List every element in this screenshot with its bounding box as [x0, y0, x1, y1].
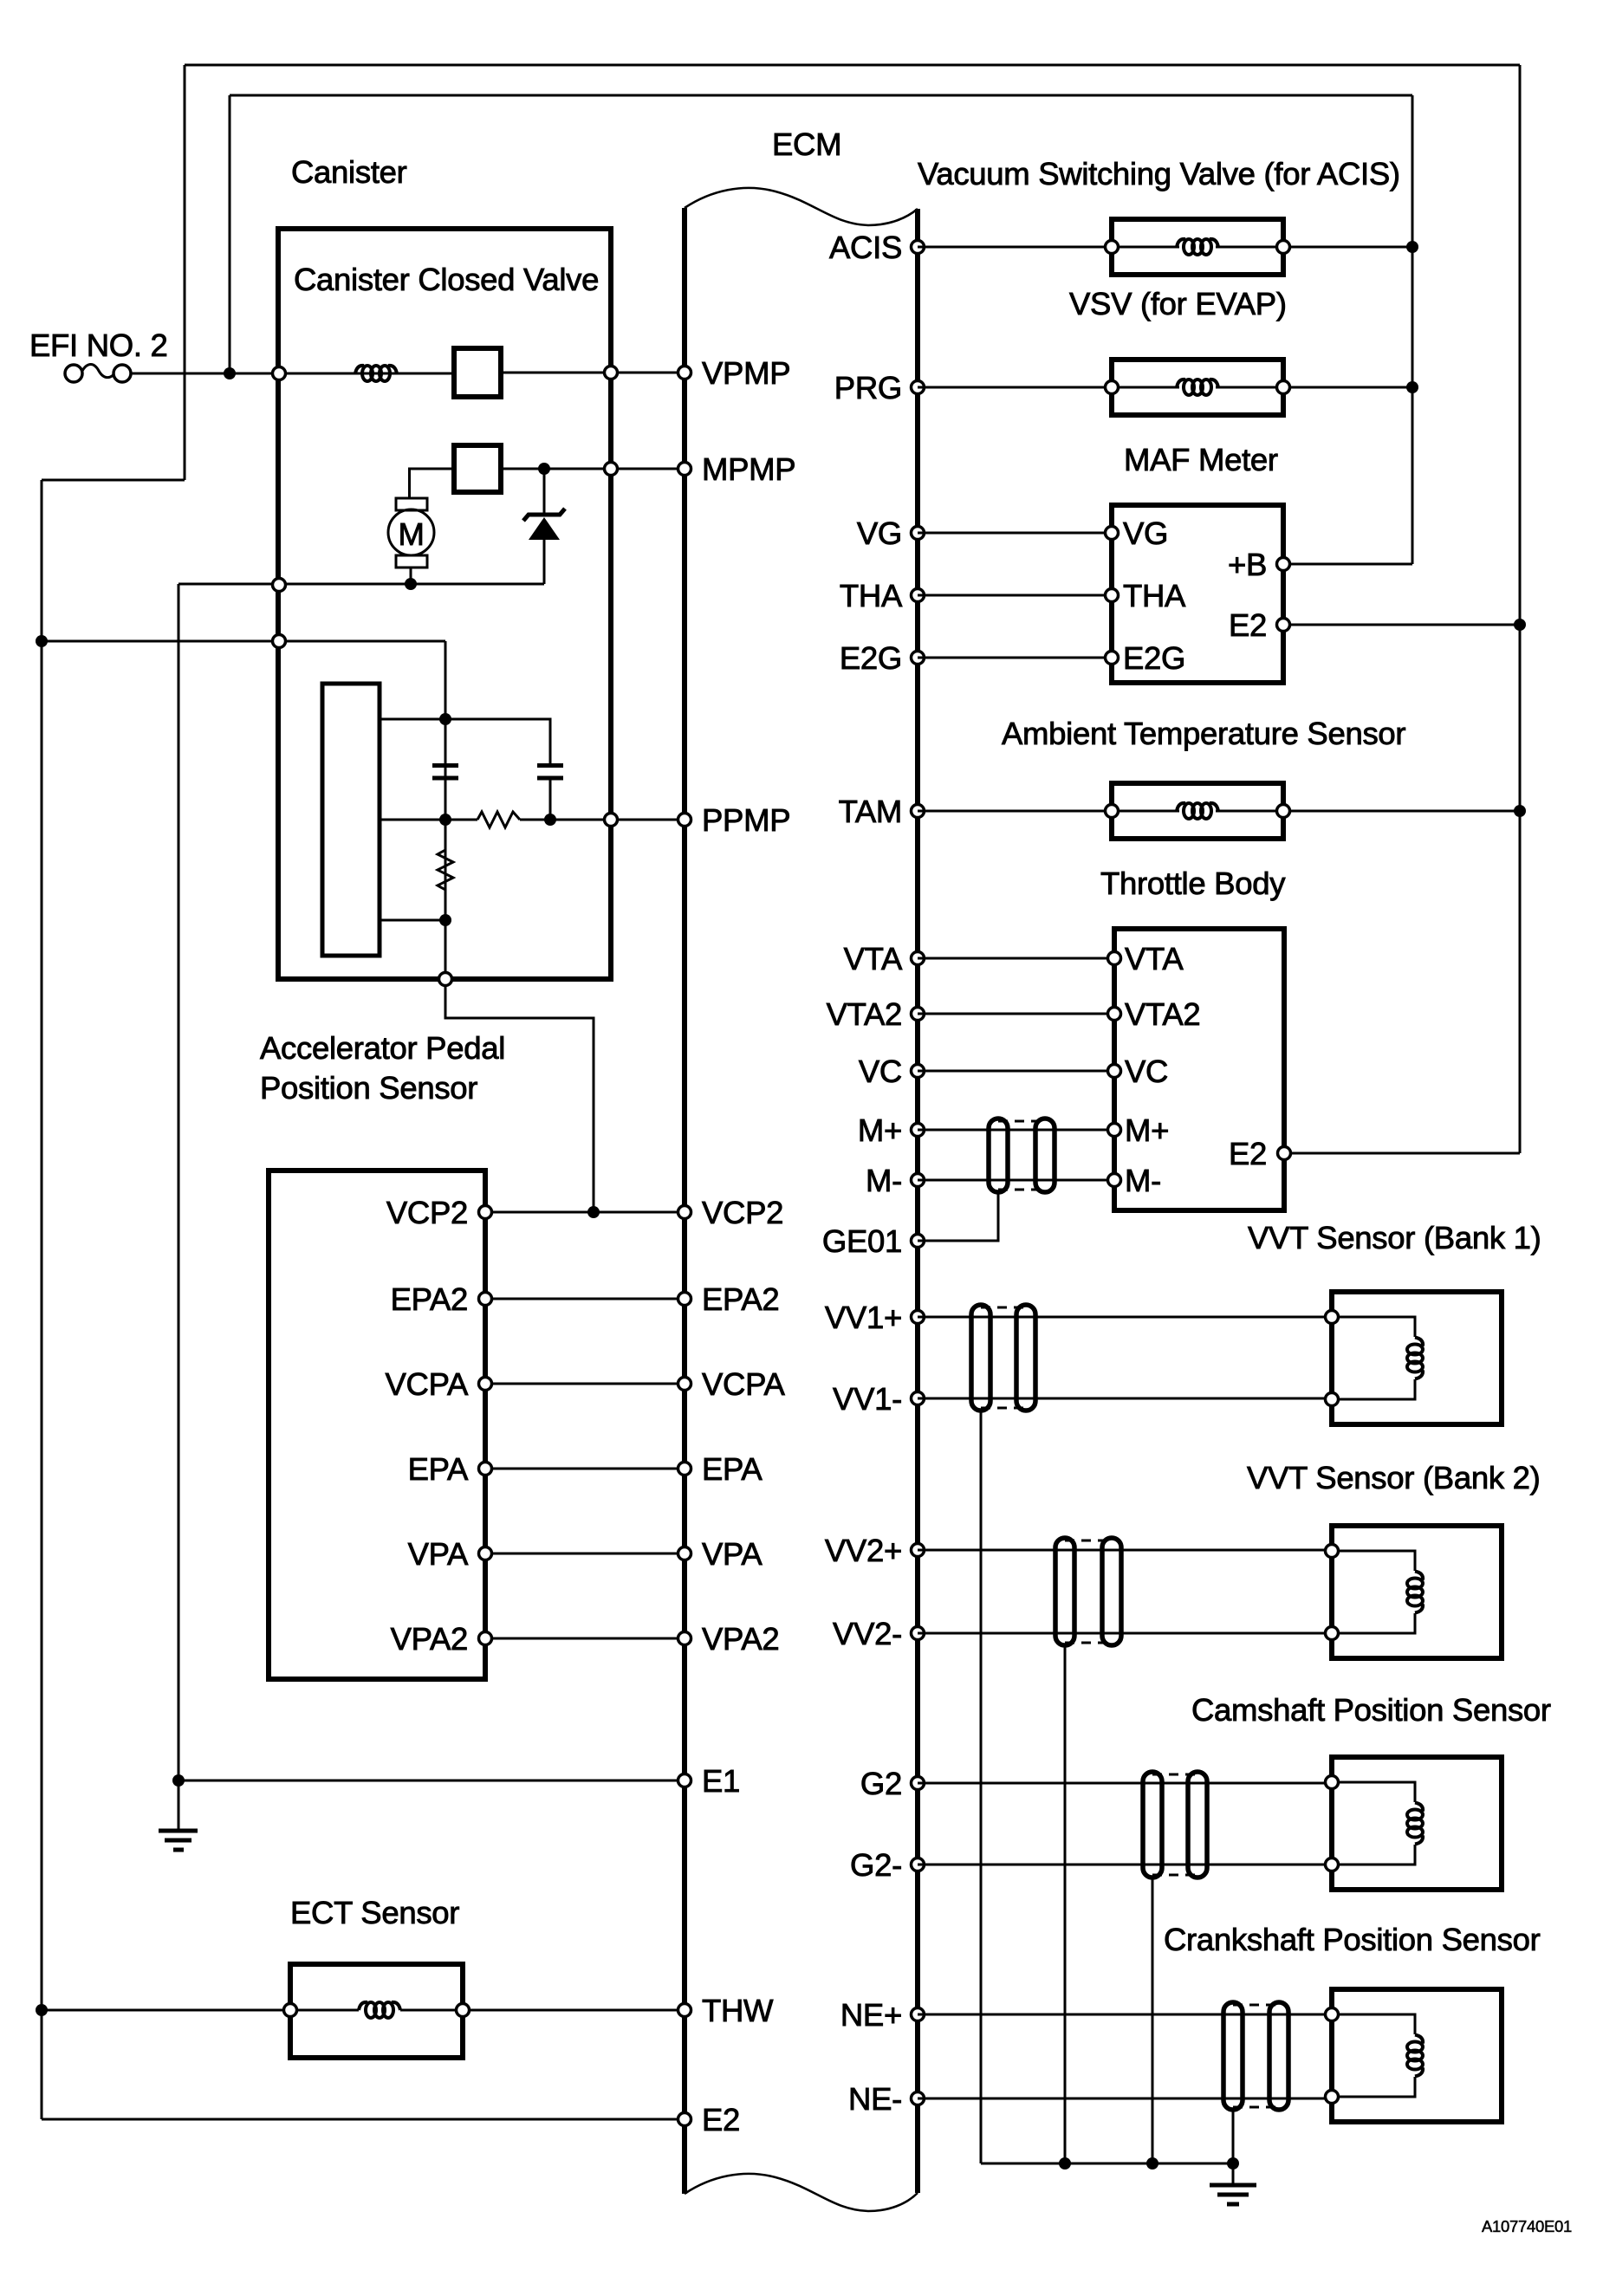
twisted pair NE — [1223, 2002, 1288, 2110]
wire: E1 drop line — [178, 584, 180, 1780]
inductor: ECT coil — [359, 2002, 400, 2018]
svg-text:Crankshaft Position Sensor: Crankshaft Position Sensor — [1164, 1922, 1541, 1957]
wire VPA — [485, 1553, 685, 1555]
pin: ECM ACIS — [912, 241, 925, 254]
node: junction resistor / C2 — [544, 814, 556, 826]
pin: ECM GE01 — [912, 1235, 925, 1248]
svg-text:MAF Meter: MAF Meter — [1124, 442, 1278, 477]
node: junction VCP2 / canister drain — [587, 1206, 600, 1218]
svg-text:Canister Closed Valve: Canister Closed Valve — [294, 262, 599, 297]
svg-text:Ambient Temperature Sensor: Ambient Temperature Sensor — [1002, 716, 1405, 751]
wire VCPA — [485, 1383, 685, 1385]
pin: ECM PPMP — [678, 814, 691, 827]
node: junction ACIS / +B line — [1406, 241, 1418, 253]
wire VV1- — [918, 1398, 1332, 1400]
pin: ECM THW — [678, 2004, 691, 2017]
accelerator pedal position sensor box — [269, 1171, 485, 1679]
ECM top wavy edge — [685, 188, 918, 225]
node: junction THW / left border — [36, 2004, 48, 2016]
svg-text:GE01: GE01 — [822, 1223, 902, 1259]
svg-text:VV2+: VV2+ — [825, 1533, 902, 1568]
wire G2- — [918, 1864, 1332, 1866]
node: junction MPMP / zener — [538, 463, 550, 475]
svg-text:EPA2: EPA2 — [702, 1281, 779, 1317]
svg-text:E2: E2 — [1229, 607, 1267, 643]
wire: EFI NO.2 to canister VPMP row — [131, 373, 279, 375]
svg-text:VTA2: VTA2 — [1125, 996, 1200, 1032]
wire: MPMP square left lead to motor — [410, 469, 455, 498]
wire +B to supply line — [1283, 563, 1412, 566]
wire: outer border jog — [42, 479, 185, 482]
pin: ECT right — [457, 2004, 470, 2017]
wire VTA — [918, 957, 1114, 960]
fuse EFI NO. 2 — [29, 328, 168, 382]
wire: inner border top line — [230, 94, 1412, 97]
svg-text:ECM: ECM — [772, 126, 841, 162]
wire ACIS VSV output — [1283, 246, 1412, 249]
VVT sensor bank1 box — [1326, 1292, 1502, 1424]
pin: ECM NE- — [912, 2092, 925, 2105]
pin: ECM TAM — [912, 805, 925, 818]
inductor: canister closed valve coil — [355, 366, 397, 381]
canister closed valve solenoid square — [454, 348, 501, 397]
svg-text:NE+: NE+ — [840, 1997, 902, 2033]
ground: E1 — [159, 1780, 198, 1850]
pin: throttle VTA — [1108, 952, 1121, 965]
pin: ECM THA — [912, 589, 925, 602]
pin: ECM VV1- — [912, 1392, 925, 1405]
pump module rectangle — [322, 684, 380, 956]
twisted pair M+/M- — [989, 1119, 1055, 1192]
pin: APP VCPA — [479, 1378, 492, 1391]
svg-text:VV1-: VV1- — [833, 1381, 902, 1417]
pin: APP VPA — [479, 1547, 492, 1560]
svg-text:VVT Sensor (Bank 1): VVT Sensor (Bank 1) — [1248, 1220, 1541, 1255]
wire NE shield drop — [1232, 2110, 1235, 2163]
svg-text:VTA: VTA — [1125, 941, 1184, 976]
wire: VPMP canister to ECM — [611, 372, 685, 374]
pin: APP EPA — [479, 1463, 492, 1476]
svg-text:VCPA: VCPA — [386, 1366, 469, 1402]
pin: ECM EPA — [678, 1463, 691, 1476]
node: junction NE shield — [1227, 2157, 1239, 2170]
pin: ECM VG — [912, 527, 925, 540]
node: junction pump top — [439, 713, 451, 725]
svg-text:THA: THA — [1123, 578, 1186, 613]
pin: canister left VPMP — [273, 367, 286, 380]
svg-text:PPMP: PPMP — [702, 802, 790, 838]
svg-text:M-: M- — [866, 1163, 902, 1198]
wire M+ — [918, 1129, 1114, 1132]
pin: ECM E2 — [678, 2113, 691, 2126]
svg-text:VCP2: VCP2 — [702, 1195, 783, 1230]
svg-text:E2G: E2G — [1123, 640, 1185, 676]
svg-text:Camshaft Position Sensor: Camshaft Position Sensor — [1191, 1692, 1551, 1728]
svg-text:EPA: EPA — [702, 1451, 763, 1487]
capacitor C1 — [432, 766, 458, 779]
svg-text:VG: VG — [1123, 516, 1168, 551]
pin: MAF THA — [1106, 589, 1119, 602]
wire shield ground bus — [981, 2163, 1233, 2165]
camshaft position sensor box — [1326, 1757, 1502, 1890]
pin: throttle M+ — [1108, 1124, 1121, 1137]
wire THW right — [463, 2009, 685, 2012]
svg-text:VTA: VTA — [844, 941, 903, 976]
zener diode across motor — [523, 469, 565, 584]
wire NE- — [918, 2098, 1332, 2100]
motor M pump — [388, 498, 434, 584]
wire E1 — [178, 1780, 685, 1782]
wire MAF E2 to far right line — [1283, 624, 1520, 626]
svg-text:G2-: G2- — [850, 1847, 902, 1883]
svg-text:VV1+: VV1+ — [825, 1300, 902, 1335]
node: junction MAF E2 / right border — [1514, 619, 1526, 631]
node: junction G2 shield — [1146, 2157, 1158, 2170]
twisted pair VV2 — [1055, 1538, 1121, 1645]
svg-text:PRG: PRG — [834, 370, 902, 405]
pin: ECM VPMP — [678, 366, 691, 379]
ECM left edge — [682, 208, 687, 2194]
pin: throttle VTA2 — [1108, 1008, 1121, 1021]
wire VPA2 — [485, 1638, 685, 1640]
svg-text:E2: E2 — [702, 2102, 740, 2137]
twisted pair VV1 — [971, 1305, 1035, 1411]
svg-text:ECT Sensor: ECT Sensor — [290, 1895, 459, 1930]
svg-text:VC: VC — [1125, 1054, 1168, 1089]
svg-text:ACIS: ACIS — [829, 230, 902, 265]
twisted pair G2 — [1143, 1772, 1207, 1878]
wire: pump middle stub PPMP row — [380, 819, 477, 821]
resistor vertical — [438, 820, 453, 920]
svg-text:G2: G2 — [860, 1766, 902, 1801]
svg-text:VC: VC — [859, 1054, 902, 1089]
wire EPA — [485, 1468, 685, 1470]
wire VTA2 — [918, 1013, 1114, 1015]
wire VV1 shield drop — [980, 1411, 983, 2163]
pin: ECM PRG — [912, 381, 925, 394]
pin: throttle M- — [1108, 1174, 1121, 1187]
pin: ECM VCPA — [678, 1378, 691, 1391]
wire: outer border right vertical — [1519, 65, 1522, 1153]
svg-text:E2G: E2G — [840, 640, 902, 676]
wire THW left — [42, 2009, 290, 2012]
pin: APP VPA2 — [479, 1632, 492, 1645]
wire VC — [918, 1070, 1114, 1073]
svg-text:M+: M+ — [1125, 1112, 1169, 1148]
svg-text:VVT Sensor (Bank 2): VVT Sensor (Bank 2) — [1247, 1460, 1541, 1495]
node: junction pump bottom — [439, 914, 451, 926]
wire: motor bottom rail — [178, 583, 544, 586]
wire VV2- — [918, 1632, 1332, 1635]
svg-text:EPA2: EPA2 — [391, 1281, 468, 1317]
pin: ECM VCP2 — [678, 1206, 691, 1219]
pin: canister right VPMP — [605, 366, 618, 379]
wire NE+ — [918, 2014, 1332, 2016]
pin: ECM G2- — [912, 1858, 925, 1871]
node: junction PRG / +B line — [1406, 381, 1418, 393]
svg-text:EFI NO. 2: EFI NO. 2 — [29, 328, 168, 363]
pin: canister right MPMP — [605, 463, 618, 476]
svg-text:M+: M+ — [858, 1112, 902, 1148]
wire: PPMP row to ECM — [520, 819, 685, 821]
wire: outer border left vertical lower — [41, 480, 43, 2119]
wire: pump bottom stub — [380, 919, 445, 922]
pin: ECM VPA2 — [678, 1632, 691, 1645]
canister box — [278, 229, 611, 979]
wire ACIS — [918, 246, 1112, 249]
svg-text:VV2-: VV2- — [833, 1616, 902, 1651]
pin: canister left motor rail — [273, 579, 286, 592]
svg-text:A107740E01: A107740E01 — [1482, 2217, 1572, 2235]
wire TAM — [918, 810, 1112, 813]
pin: throttle E2 — [1278, 1147, 1291, 1160]
svg-text:Accelerator Pedal: Accelerator Pedal — [260, 1030, 505, 1066]
node: junction pump middle — [439, 814, 451, 826]
pin: ECT left — [284, 2004, 297, 2017]
wire: MPMP square to canister edge — [501, 468, 611, 470]
ambient temperature sensor box — [1106, 783, 1290, 839]
pin: ECM VV2+ — [912, 1544, 925, 1557]
wire: +B supply vertical — [1412, 95, 1414, 564]
pin: ECM E2G — [912, 652, 925, 665]
svg-text:VPA2: VPA2 — [702, 1621, 779, 1657]
node: junction motor bottom — [405, 578, 417, 590]
svg-text:NE-: NE- — [848, 2081, 902, 2117]
svg-text:VPA: VPA — [408, 1536, 469, 1572]
pin: throttle VC — [1108, 1065, 1121, 1078]
node: junction VV2 shield — [1059, 2157, 1071, 2170]
VSV for ACIS box — [1106, 219, 1290, 275]
svg-text:VPMP: VPMP — [702, 355, 790, 391]
svg-text:EPA: EPA — [408, 1451, 469, 1487]
wire EPA2 — [485, 1298, 685, 1300]
pin: APP VCP2 — [479, 1206, 492, 1219]
svg-text:VCP2: VCP2 — [386, 1195, 468, 1230]
wire: inner border left vertical — [229, 95, 231, 373]
pin: MAF +B — [1277, 558, 1290, 571]
pin: ECM M- — [912, 1174, 925, 1187]
pin: ECM G2 — [912, 1777, 925, 1790]
pin: MAF E2 — [1277, 619, 1290, 632]
svg-text:VSV (for EVAP): VSV (for EVAP) — [1069, 286, 1287, 321]
pin: ECM EPA2 — [678, 1293, 691, 1306]
crankshaft position sensor box — [1326, 1989, 1502, 2122]
svg-text:Throttle Body: Throttle Body — [1100, 866, 1286, 901]
wire THA — [918, 594, 1112, 597]
wire VV2 shield drop — [1064, 1645, 1067, 2163]
resistor horizontal — [477, 812, 520, 827]
node: junction TAM / right border — [1514, 805, 1526, 817]
pin: ECM VTA — [912, 952, 925, 965]
svg-text:VCPA: VCPA — [702, 1366, 785, 1402]
svg-text:E2: E2 — [1229, 1136, 1267, 1171]
pin: MAF E2G — [1106, 652, 1119, 665]
node: junction EFI / inner border — [224, 367, 236, 379]
wire VV2+ — [918, 1549, 1332, 1552]
pin: ECM VTA2 — [912, 1008, 925, 1021]
svg-text:THW: THW — [702, 1993, 774, 2028]
wire: VPMP row inside canister — [279, 373, 454, 375]
ECT sensor box — [290, 1964, 463, 2058]
wire PRG VSV output — [1283, 386, 1412, 389]
capacitor C2 — [537, 766, 563, 820]
svg-text:E1: E1 — [702, 1763, 740, 1799]
pump solenoid square MPMP — [454, 445, 501, 492]
wire PRG — [918, 386, 1112, 389]
pin: ECM MPMP — [678, 463, 691, 476]
wire TAM output — [1283, 810, 1520, 813]
pin: canister bottom — [439, 973, 452, 986]
pin: ECM VC — [912, 1065, 925, 1078]
VSV for EVAP box — [1106, 360, 1290, 415]
ground: shield bus — [1210, 2163, 1256, 2204]
svg-text:VTA2: VTA2 — [827, 996, 902, 1032]
svg-text:M: M — [398, 516, 424, 552]
pin: ECM VV2- — [912, 1627, 925, 1640]
pin: ECM E1 — [678, 1774, 691, 1787]
pin: APP EPA2 — [479, 1293, 492, 1306]
wire: VPMP square to canister edge — [501, 372, 611, 374]
wire: pump top stub and branch — [380, 719, 550, 763]
wire E2G — [918, 657, 1112, 659]
wire VG — [918, 532, 1112, 535]
wire THW inside ECT — [290, 2009, 359, 2012]
wire G2 shield drop — [1152, 1878, 1154, 2163]
svg-text:+B: +B — [1228, 547, 1267, 582]
pin: MAF VG — [1106, 527, 1119, 540]
svg-text:VPA2: VPA2 — [391, 1621, 468, 1657]
svg-text:MPMP: MPMP — [702, 451, 795, 487]
svg-text:THA: THA — [840, 578, 903, 613]
wire M- — [918, 1179, 1114, 1182]
pin: ECM VPA — [678, 1547, 691, 1560]
throttle body box — [1114, 929, 1284, 1210]
svg-text:M-: M- — [1125, 1163, 1161, 1198]
VVT sensor bank2 box — [1326, 1526, 1502, 1658]
svg-text:TAM: TAM — [839, 794, 902, 829]
wire: pump supply row — [42, 640, 445, 643]
pin: canister left pump supply — [273, 635, 286, 648]
wire G2 — [918, 1782, 1332, 1785]
node: junction E1 — [172, 1774, 185, 1787]
svg-text:Canister: Canister — [291, 154, 407, 190]
node: junction left border / pump supply — [36, 635, 48, 647]
ECM right edge — [915, 209, 920, 2193]
pin: canister right PPMP — [605, 814, 618, 827]
svg-text:VG: VG — [857, 516, 902, 551]
wire throttle E2 to right border — [1284, 1152, 1520, 1155]
wire VV1+ — [918, 1316, 1332, 1319]
wire: outer border top line — [185, 64, 1520, 67]
wire: canister drain to VCP2 — [445, 979, 594, 1212]
wire: pump vertical bus — [445, 641, 447, 979]
svg-text:VPA: VPA — [702, 1536, 763, 1572]
ECM bottom wavy edge — [685, 2174, 918, 2211]
pin: ECM VV1+ — [912, 1311, 925, 1324]
MAF meter box — [1112, 505, 1283, 683]
wire VCP2 — [485, 1211, 685, 1214]
wire GE01 shield — [918, 1192, 998, 1241]
pin: ECM M+ — [912, 1124, 925, 1137]
wire: MPMP canister to ECM — [611, 468, 685, 470]
pin: ECM NE+ — [912, 2008, 925, 2021]
wire E2 bottom — [42, 2118, 685, 2121]
svg-text:Position Sensor: Position Sensor — [260, 1070, 477, 1106]
svg-text:Vacuum Switching Valve (for AC: Vacuum Switching Valve (for ACIS) — [918, 156, 1400, 191]
wire: outer border left vertical upper — [184, 65, 186, 480]
